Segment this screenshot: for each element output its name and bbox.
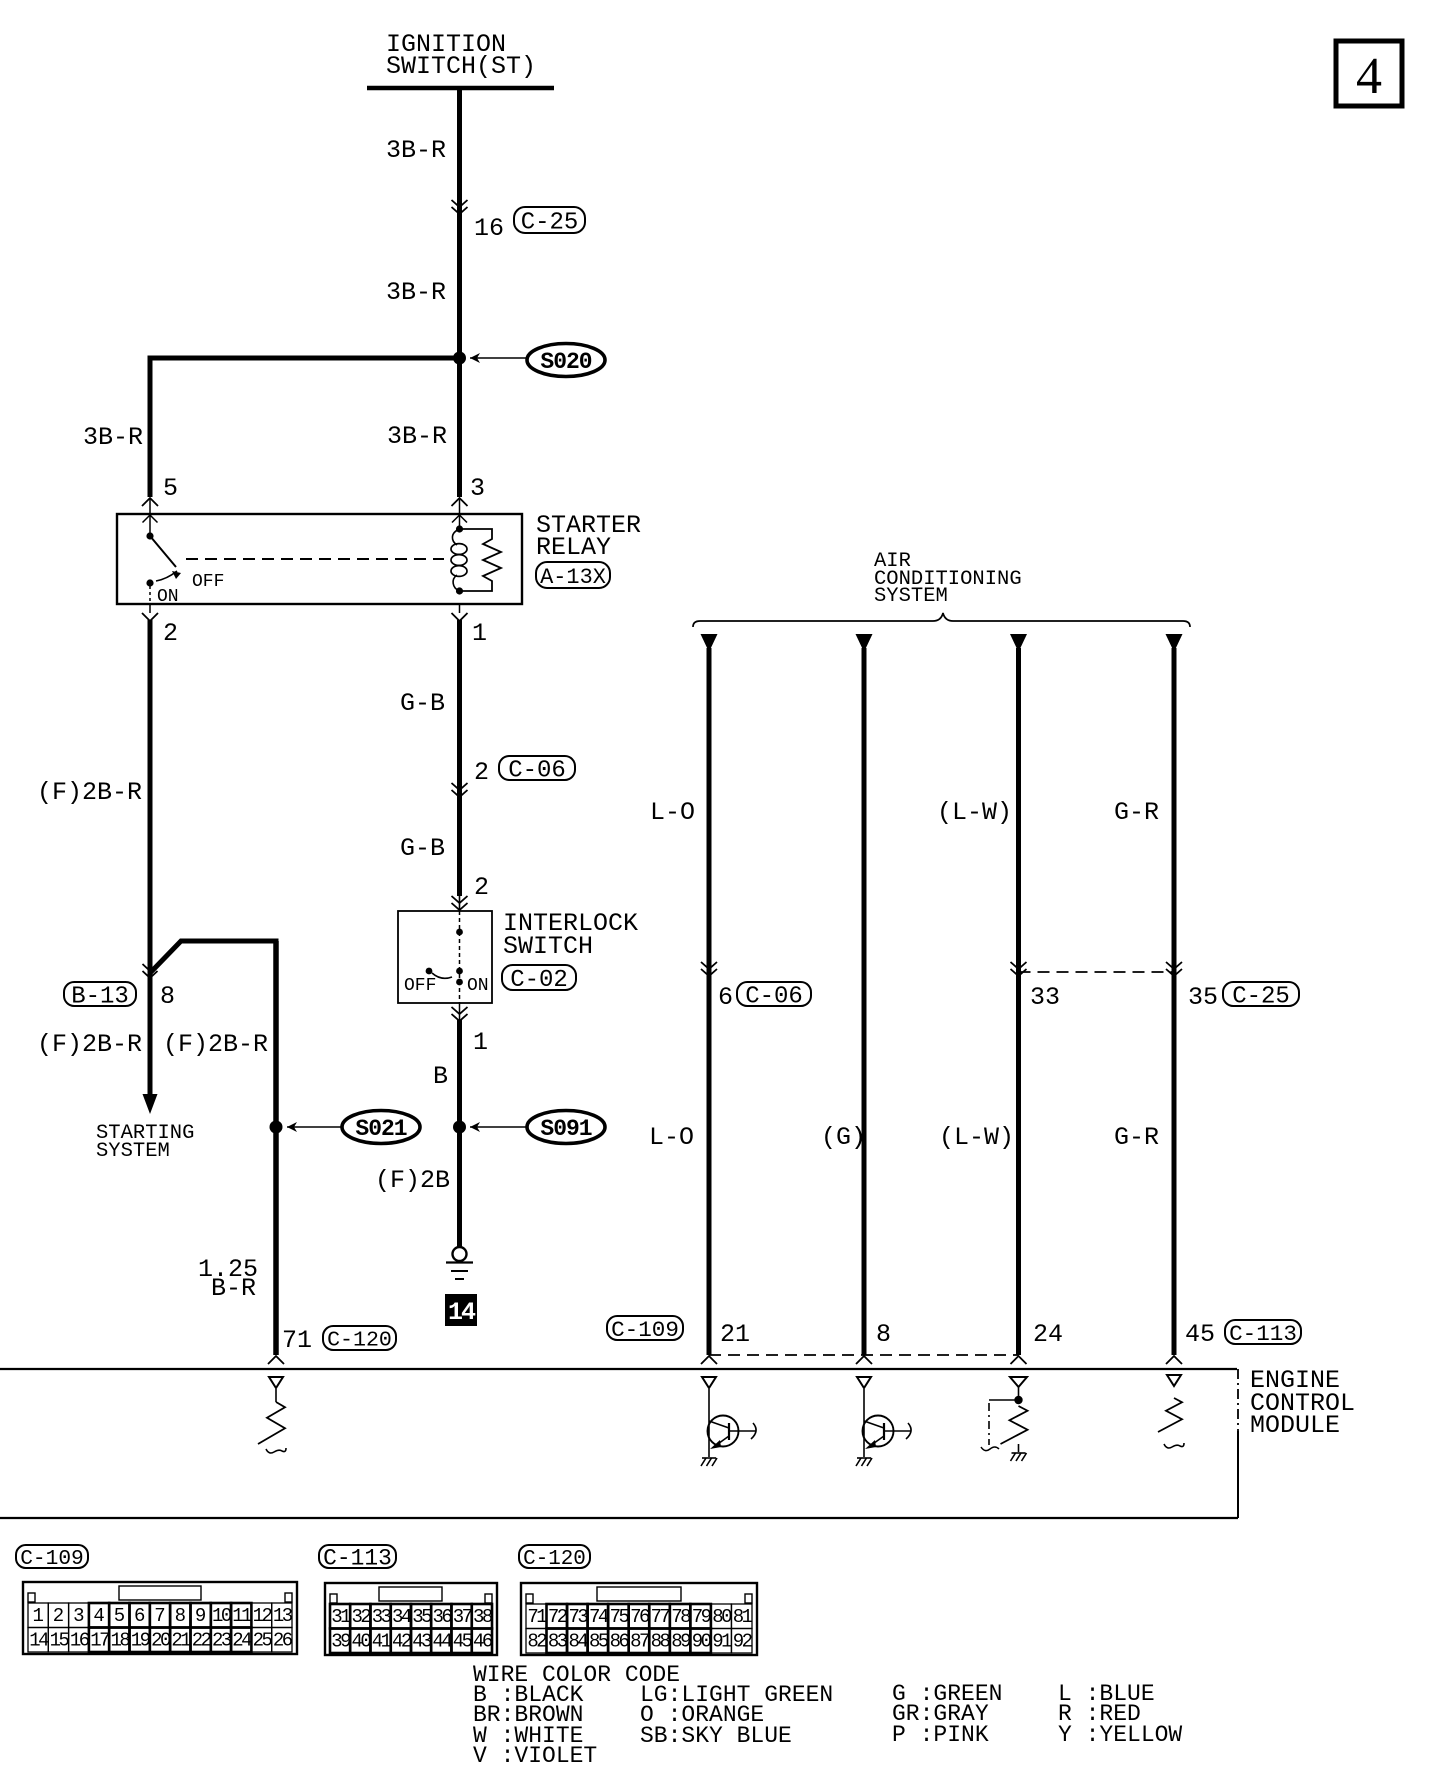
svg-text:OFF: OFF (192, 572, 224, 592)
wire label (F)2B (375, 1166, 450, 1195)
AC wire 4 entry arrow (1166, 1356, 1182, 1364)
svg-text:19: 19 (131, 1630, 151, 1652)
svg-text:92: 92 (733, 1631, 753, 1653)
pin 3 label (470, 474, 485, 503)
svg-text:(F)2B-R: (F)2B-R (37, 778, 142, 807)
svg-text:40: 40 (351, 1631, 371, 1653)
AC wire 4 (1172, 648, 1177, 1355)
svg-text:SWITCH(ST): SWITCH(ST) (386, 52, 536, 81)
wire label (L-W) lower (939, 1123, 1014, 1152)
wire label (F)2B-R lower-right (163, 1030, 268, 1059)
connector crossing 16 C-25 (452, 200, 586, 243)
wire label G-B lower (400, 834, 445, 863)
svg-text:(F)2B: (F)2B (375, 1166, 450, 1195)
svg-text:33: 33 (372, 1606, 392, 1628)
svg-text:16: 16 (474, 214, 504, 243)
connector crossing B-13 (64, 964, 175, 1011)
svg-text:L-O: L-O (650, 798, 695, 827)
wire S020 down (457, 358, 462, 497)
relay pin 5 entry arrow (143, 515, 158, 533)
air conditioning brace (693, 613, 1190, 627)
svg-text:SB:SKY BLUE: SB:SKY BLUE (640, 1723, 792, 1749)
svg-text:34: 34 (392, 1606, 412, 1628)
svg-text:B-13: B-13 (71, 984, 129, 1011)
svg-text:76: 76 (630, 1606, 650, 1628)
relay coil lower node (456, 587, 463, 594)
svg-text:35: 35 (412, 1606, 432, 1628)
svg-text:C-120: C-120 (327, 1329, 392, 1353)
wire label 1.25 B-R (198, 1255, 258, 1303)
svg-text:45: 45 (1185, 1320, 1215, 1349)
AC wire 1 arrowhead (701, 634, 718, 652)
ECM pin 45 input triangle (1167, 1375, 1181, 1386)
wire ignition to S020 (457, 88, 462, 360)
dashed link 33-35 (1019, 971, 1175, 973)
svg-text:14: 14 (448, 1298, 476, 1327)
splice S091 (453, 1111, 605, 1144)
svg-text:S021: S021 (355, 1116, 406, 1142)
ground symbol (446, 1247, 473, 1279)
ECM pin 24 input triangle (1010, 1377, 1027, 1387)
wire S020 branch left (148, 356, 460, 498)
interlock contact top (456, 929, 463, 936)
svg-text:OFF: OFF (404, 976, 436, 996)
wire label (G) (821, 1123, 866, 1152)
svg-text:8: 8 (175, 1605, 186, 1627)
svg-text:17: 17 (90, 1630, 109, 1652)
svg-text:10: 10 (212, 1605, 232, 1627)
AC wire 2 arrowhead (856, 634, 873, 652)
svg-text:3B-R: 3B-R (386, 136, 446, 165)
interlock connector C-02 (502, 965, 576, 994)
svg-text:2: 2 (163, 619, 178, 648)
svg-text:(F)2B-R: (F)2B-R (163, 1030, 268, 1059)
AC wire 2 entry arrow (856, 1356, 872, 1364)
svg-text:3: 3 (73, 1605, 84, 1627)
svg-text:4: 4 (93, 1605, 104, 1627)
connector C-120 pinout (519, 1545, 757, 1655)
AC wire 1 (707, 648, 712, 1355)
svg-text:G-R: G-R (1114, 1123, 1159, 1152)
AC wire 3 (1016, 648, 1021, 1355)
svg-text:80: 80 (712, 1606, 732, 1628)
svg-text:73: 73 (568, 1606, 588, 1628)
wire pin1 down (457, 620, 462, 911)
interlock pin 1 label (473, 1028, 488, 1057)
connector crossing 6 C-06 (701, 962, 811, 1012)
ECM resistor at pin 71 (258, 1389, 286, 1453)
interlock ON label (467, 976, 489, 996)
svg-text:31: 31 (331, 1606, 351, 1628)
svg-text:91: 91 (712, 1631, 732, 1653)
svg-text:(F)2B-R: (F)2B-R (37, 1030, 142, 1059)
svg-text:18: 18 (110, 1630, 130, 1652)
svg-text:1: 1 (32, 1605, 43, 1627)
starting system arrow (143, 1094, 158, 1114)
svg-text:SWITCH: SWITCH (503, 932, 593, 961)
wire label 3B-R lower (386, 278, 446, 307)
connector C-109 ref (607, 1316, 683, 1343)
svg-text:21: 21 (720, 1320, 750, 1349)
svg-text:(L-W): (L-W) (939, 1123, 1014, 1152)
ECM transistor at pin 8 (856, 1377, 911, 1466)
svg-text:77: 77 (651, 1606, 670, 1628)
dashed link 21-8-24 (709, 1354, 1019, 1356)
svg-text:G-B: G-B (400, 834, 445, 863)
svg-text:SYSTEM: SYSTEM (874, 585, 948, 608)
pin 8 label (876, 1320, 891, 1349)
svg-text:45: 45 (453, 1631, 473, 1653)
page number box 4 (1336, 41, 1402, 106)
svg-text:16: 16 (70, 1630, 90, 1652)
svg-text:Y :YELLOW: Y :YELLOW (1058, 1722, 1182, 1748)
svg-text:P :PINK: P :PINK (892, 1722, 989, 1748)
svg-text:1: 1 (473, 1028, 488, 1057)
interlock switch box (398, 911, 492, 1003)
svg-text:44: 44 (432, 1631, 452, 1653)
relay OFF label (192, 572, 224, 592)
svg-text:81: 81 (733, 1606, 753, 1628)
svg-text:S091: S091 (540, 1116, 591, 1142)
svg-text:L-O: L-O (649, 1123, 694, 1152)
svg-text:3B-R: 3B-R (83, 423, 143, 452)
splice S021 (270, 1111, 421, 1144)
relay pin 3 entry arrow (452, 515, 467, 526)
svg-text:42: 42 (392, 1631, 412, 1653)
svg-text:6: 6 (718, 983, 733, 1012)
svg-text:S020: S020 (540, 349, 591, 375)
svg-text:88: 88 (651, 1631, 671, 1653)
wire interlock to ground (457, 1020, 462, 1247)
ECM transistor at pin 21 (701, 1377, 756, 1466)
svg-text:6: 6 (134, 1605, 145, 1627)
svg-text:23: 23 (212, 1630, 232, 1652)
engine control module label (1250, 1366, 1355, 1440)
svg-text:46: 46 (473, 1631, 493, 1653)
wire label G-B upper (400, 689, 445, 718)
pin 45 label (1185, 1320, 1301, 1349)
connector crossing 35 C-25 (1166, 962, 1299, 1012)
pin 2 label (163, 619, 178, 648)
svg-text:36: 36 (432, 1606, 452, 1628)
engine control module box (0, 1369, 1238, 1518)
svg-text:C-02: C-02 (510, 967, 568, 994)
pin 2 exit arrow (142, 604, 468, 621)
svg-text:71: 71 (527, 1606, 547, 1628)
svg-text:32: 32 (351, 1606, 371, 1628)
svg-text:B: B (433, 1062, 448, 1091)
connector C-113 pinout (319, 1545, 497, 1655)
svg-text:C-109: C-109 (611, 1317, 679, 1343)
relay switch arm (150, 536, 181, 581)
svg-text:3: 3 (470, 474, 485, 503)
svg-text:83: 83 (548, 1631, 568, 1653)
svg-text:9: 9 (195, 1605, 206, 1627)
AC wire 4 arrowhead (1166, 634, 1183, 652)
relay ON label (157, 587, 179, 607)
svg-text:2: 2 (474, 758, 489, 787)
ignition switch (ST) label (386, 30, 536, 81)
connector crossing 33 (1011, 962, 1061, 1012)
svg-text:C-120: C-120 (523, 1548, 586, 1571)
svg-text:3B-R: 3B-R (386, 278, 446, 307)
svg-text:C-25: C-25 (1232, 984, 1290, 1011)
svg-text:RELAY: RELAY (536, 533, 611, 562)
svg-text:8: 8 (876, 1320, 891, 1349)
svg-text:84: 84 (568, 1631, 588, 1653)
svg-text:43: 43 (412, 1631, 432, 1653)
interlock wire through (459, 911, 461, 1003)
svg-text:4: 4 (1356, 48, 1382, 105)
svg-text:14: 14 (29, 1630, 49, 1652)
svg-text:8: 8 (160, 982, 175, 1011)
svg-text:5: 5 (163, 474, 178, 503)
svg-text:C-25: C-25 (521, 210, 579, 237)
splice S020 (453, 344, 605, 377)
relay coil resistor loop (460, 529, 502, 591)
air conditioning system label (874, 550, 1022, 608)
svg-text:89: 89 (671, 1631, 691, 1653)
svg-text:87: 87 (630, 1631, 649, 1653)
wire label B (433, 1062, 448, 1091)
svg-text:79: 79 (692, 1606, 712, 1628)
svg-text:39: 39 (331, 1631, 351, 1653)
svg-text:12: 12 (253, 1605, 273, 1627)
wire label 3B-R right branch (387, 422, 447, 451)
pin 21 label (720, 1320, 750, 1349)
pin 71 entry arrow (268, 1356, 284, 1364)
svg-text:7: 7 (154, 1605, 165, 1627)
svg-text:85: 85 (589, 1631, 609, 1653)
svg-text:2: 2 (474, 873, 489, 902)
wire label L-O upper (650, 798, 695, 827)
wire label G-R upper (1114, 798, 1159, 827)
wire label 3B-R left branch (83, 423, 143, 452)
svg-text:74: 74 (589, 1606, 609, 1628)
svg-text:13: 13 (273, 1605, 293, 1627)
wire label (F)2B-R lower-left (37, 1030, 142, 1059)
svg-text:G-R: G-R (1114, 798, 1159, 827)
interlock name label (503, 909, 638, 961)
pin 5 connector arrow (142, 498, 158, 514)
AC wire 1 entry arrow (701, 1356, 717, 1364)
pin 5 label (163, 474, 178, 503)
svg-text:24: 24 (1033, 1320, 1063, 1349)
svg-text:C-06: C-06 (508, 758, 566, 785)
svg-text:C-109: C-109 (20, 1547, 84, 1571)
starting system label (96, 1122, 194, 1163)
svg-text:5: 5 (114, 1605, 125, 1627)
svg-text:41: 41 (372, 1631, 392, 1653)
relay coil windings (451, 529, 467, 591)
starter relay box (117, 514, 522, 604)
wire pin2 down (148, 620, 153, 1095)
pin 3 connector arrow (452, 498, 468, 514)
svg-text:C-113: C-113 (1229, 1321, 1297, 1347)
svg-text:15: 15 (50, 1630, 70, 1652)
connector C-109 pinout (16, 1545, 297, 1654)
svg-text:86: 86 (610, 1631, 630, 1653)
interlock pin 2 label (452, 873, 490, 910)
svg-text:C-113: C-113 (323, 1546, 392, 1572)
svg-text:21: 21 (171, 1630, 191, 1652)
connector crossing 2 C-06 (452, 756, 576, 797)
wire label L-O lower (649, 1123, 694, 1152)
svg-text:ON: ON (467, 976, 489, 996)
ECM resistor network at pin 24 (981, 1387, 1028, 1461)
svg-text:20: 20 (151, 1630, 171, 1652)
branch wire to pin71 (150, 941, 279, 1355)
interlock OFF label (404, 976, 436, 996)
svg-text:75: 75 (610, 1606, 630, 1628)
relay switch contact upper (146, 532, 153, 539)
svg-text:82: 82 (527, 1631, 547, 1653)
svg-text:24: 24 (232, 1630, 252, 1652)
svg-text:G-B: G-B (400, 689, 445, 718)
relay name label (536, 511, 641, 562)
ground ref 14 box (445, 1294, 477, 1327)
AC wire 2 (862, 648, 867, 1355)
relay coil upper node (456, 525, 463, 532)
wire label (F)2B-R upper (37, 778, 142, 807)
wire label (L-W) upper (937, 798, 1012, 827)
svg-text:ON: ON (157, 587, 179, 607)
AC wire 3 entry arrow (1011, 1356, 1027, 1364)
svg-text:22: 22 (192, 1630, 212, 1652)
svg-text:A-13X: A-13X (540, 565, 606, 590)
wire label 3B-R upper (386, 136, 446, 165)
svg-text:1: 1 (472, 619, 487, 648)
ECM coil at pin 45 (1158, 1398, 1184, 1448)
AC wire 3 arrowhead (1010, 634, 1027, 652)
pin 24 label (1033, 1320, 1063, 1349)
svg-text:(G): (G) (821, 1123, 866, 1152)
svg-text:35: 35 (1188, 983, 1218, 1012)
svg-text:38: 38 (473, 1606, 493, 1628)
ECM pin 71 input triangle (269, 1377, 283, 1388)
pin 71 label (282, 1326, 396, 1355)
relay connector A-13X (536, 562, 610, 590)
svg-text:37: 37 (453, 1606, 472, 1628)
svg-text:11: 11 (232, 1605, 252, 1627)
svg-text:90: 90 (692, 1631, 712, 1653)
svg-text:72: 72 (548, 1606, 568, 1628)
svg-text:SYSTEM: SYSTEM (96, 1140, 170, 1163)
relay dashed link (186, 558, 444, 560)
svg-text:26: 26 (273, 1630, 293, 1652)
relay switch contact lower (146, 579, 153, 586)
interlock contacts (426, 968, 463, 986)
ignition switch bus bar (367, 86, 554, 91)
svg-text:(L-W): (L-W) (937, 798, 1012, 827)
relay pin5 lower lead (149, 586, 151, 604)
wire color code legend (473, 1662, 1182, 1769)
svg-text:2: 2 (53, 1605, 64, 1627)
svg-text:78: 78 (671, 1606, 691, 1628)
interlock pin 1 arrow (452, 1003, 468, 1021)
svg-text:C-06: C-06 (745, 984, 803, 1011)
svg-text:MODULE: MODULE (1250, 1411, 1340, 1440)
pin 1 label (472, 619, 487, 648)
wire label G-R lower (1114, 1123, 1159, 1152)
svg-text:3B-R: 3B-R (387, 422, 447, 451)
svg-text:25: 25 (253, 1630, 273, 1652)
svg-text:V :VIOLET: V :VIOLET (473, 1743, 597, 1769)
svg-text:B-R: B-R (211, 1274, 256, 1303)
svg-text:33: 33 (1030, 983, 1060, 1012)
svg-text:71: 71 (282, 1326, 312, 1355)
